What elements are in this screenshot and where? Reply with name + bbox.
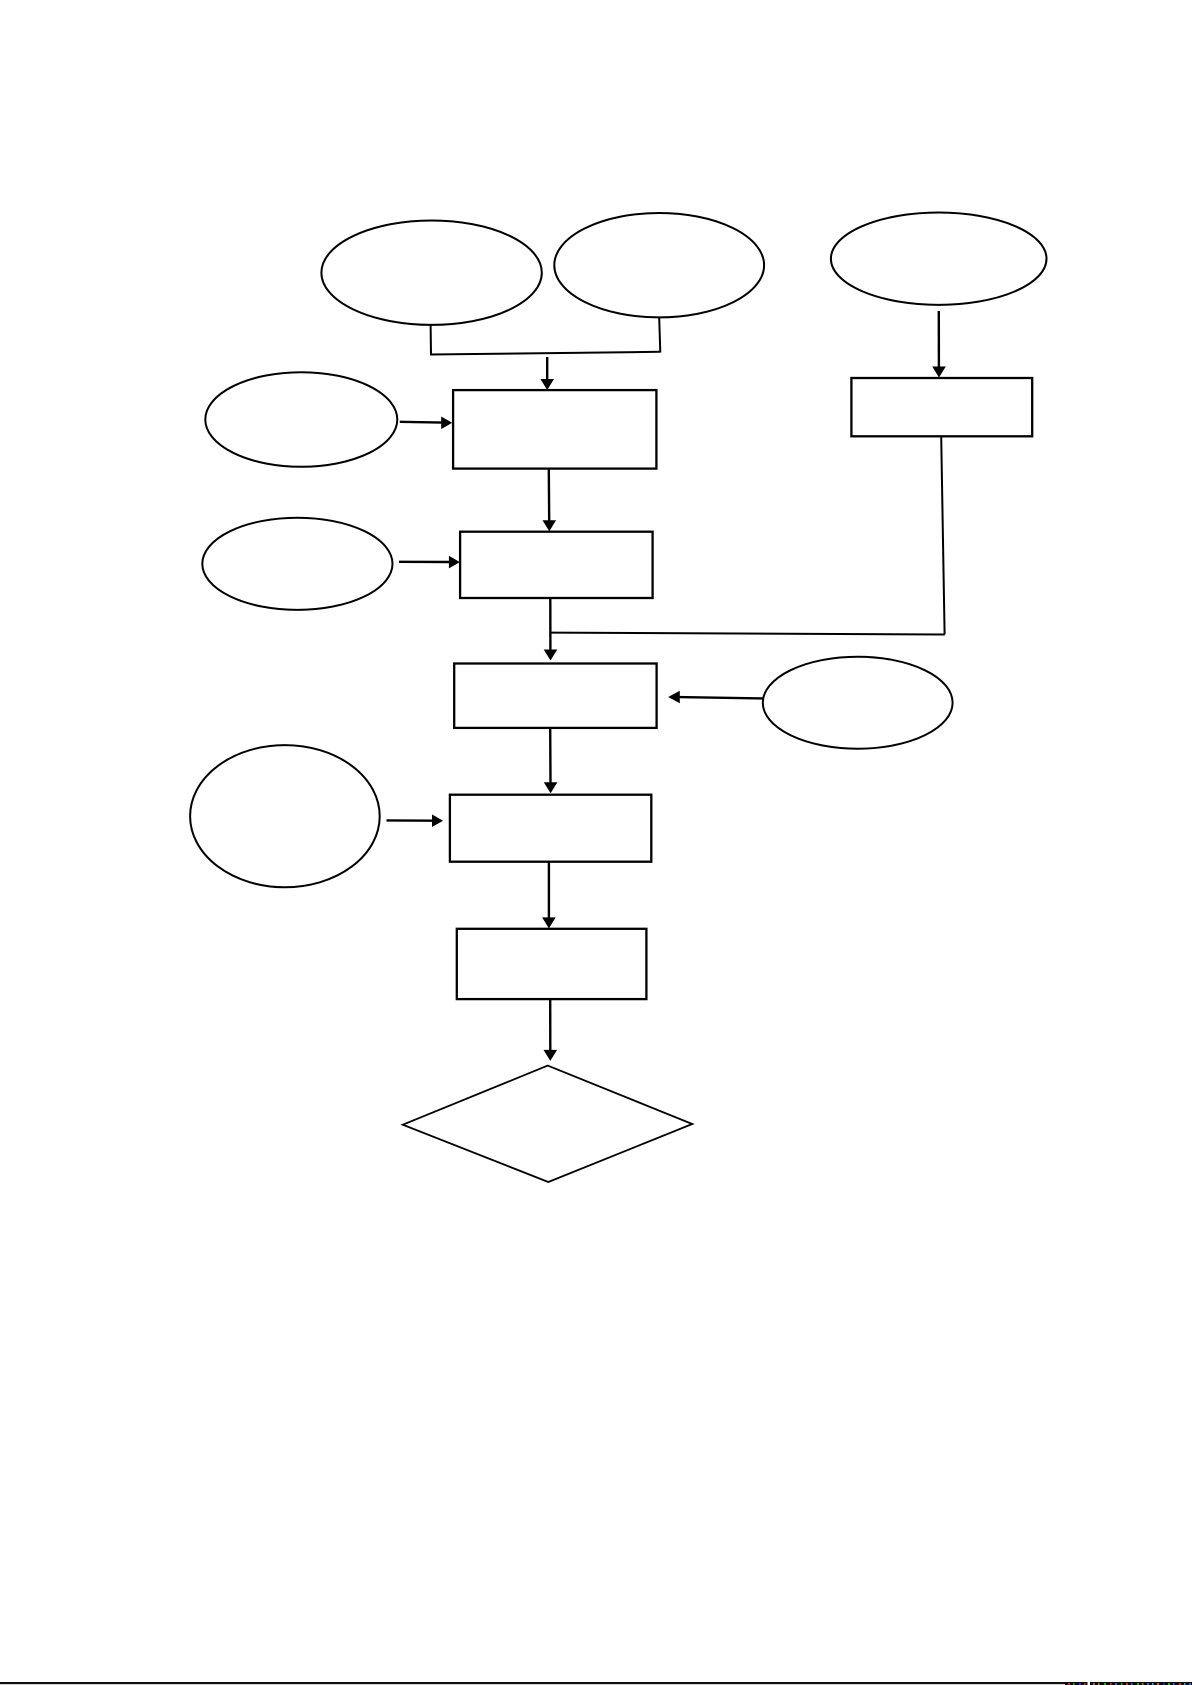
arrow from join into box B1	[546, 357, 548, 381]
ellipse E5 (left of B2)	[202, 518, 392, 610]
wire from BR bottom down to junction	[941, 437, 944, 635]
arrow from E5 into B2	[399, 561, 450, 564]
process box B3	[454, 664, 656, 728]
wire horizontal joining E1 and E2 branches	[430, 352, 661, 355]
wire from E1 bottom down	[430, 325, 432, 355]
process box B4	[450, 795, 651, 862]
ellipse E4 (left of B1)	[205, 372, 397, 467]
arrow from E7 into B4	[387, 819, 434, 822]
arrow from E4 into B1	[400, 421, 443, 424]
arrow from B3 down into B4	[549, 728, 552, 784]
ellipse E2 (top middle)	[554, 213, 764, 317]
ellipse E3 (top right)	[831, 213, 1047, 305]
ellipse E6 (right of B3)	[763, 657, 953, 749]
arrow from E3 down into right box BR	[938, 311, 941, 368]
wire from E2 bottom down	[659, 317, 660, 352]
wire from B2 bottom down through junction, arrow into B3	[549, 599, 552, 652]
arrow from B4 down into B5	[548, 862, 550, 919]
process box B1	[453, 390, 656, 469]
process box B5	[457, 929, 647, 999]
arrow from B5 down into diamond D1	[549, 1000, 551, 1052]
footer rule	[0, 1682, 1192, 1684]
footer tiny text specks (bottom right)	[1065, 1682, 1192, 1685]
decision diamond D1	[403, 1066, 693, 1182]
process box B2	[460, 532, 652, 598]
arrow from B1 down into B2	[548, 469, 551, 522]
process box BR (right)	[851, 378, 1032, 436]
arrow from E6 left into B3	[679, 697, 763, 698]
wire horizontal from junction leftwards	[551, 633, 945, 635]
ellipse E7 (big, left of B4)	[190, 745, 380, 887]
ellipse E1 (top left)	[321, 221, 541, 325]
